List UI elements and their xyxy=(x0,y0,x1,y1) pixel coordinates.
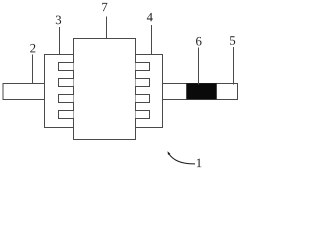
slot 3 of left plate 3 xyxy=(59,95,74,103)
leader line for label 3 xyxy=(59,27,61,55)
slot 4 of right plate 4 xyxy=(136,111,150,119)
left shaft 2 xyxy=(3,84,45,100)
central block 7 (stator body) xyxy=(74,39,136,140)
arrowhead of leader 1 xyxy=(168,151,171,155)
leader line for label 5 xyxy=(233,47,235,85)
leader line for label 6 xyxy=(198,48,200,85)
slot 2 of left plate 3 xyxy=(59,79,74,87)
label 1 xyxy=(197,159,202,167)
leader line for label 2 xyxy=(32,55,34,85)
left end plate 3 xyxy=(45,55,74,128)
label 6 xyxy=(196,37,201,46)
label 3 xyxy=(56,16,61,25)
slot 4 of left plate 3 xyxy=(59,111,74,119)
right end plate 4 xyxy=(136,55,163,128)
slot 3 of right plate 4 xyxy=(136,95,150,103)
label 5 xyxy=(230,36,235,45)
leader line for label 7 xyxy=(106,17,108,40)
black element 6 on right shaft xyxy=(187,84,217,100)
label 2 xyxy=(30,44,35,52)
slot 1 of right plate 4 xyxy=(136,63,150,71)
curved leader for label 1 xyxy=(169,154,195,164)
slot 1 of left plate 3 xyxy=(59,63,74,71)
leader line for label 4 xyxy=(151,25,153,55)
label 7 xyxy=(102,3,107,11)
right shaft 5 xyxy=(163,84,238,100)
slot 2 of right plate 4 xyxy=(136,79,150,87)
label 4 xyxy=(147,13,153,21)
